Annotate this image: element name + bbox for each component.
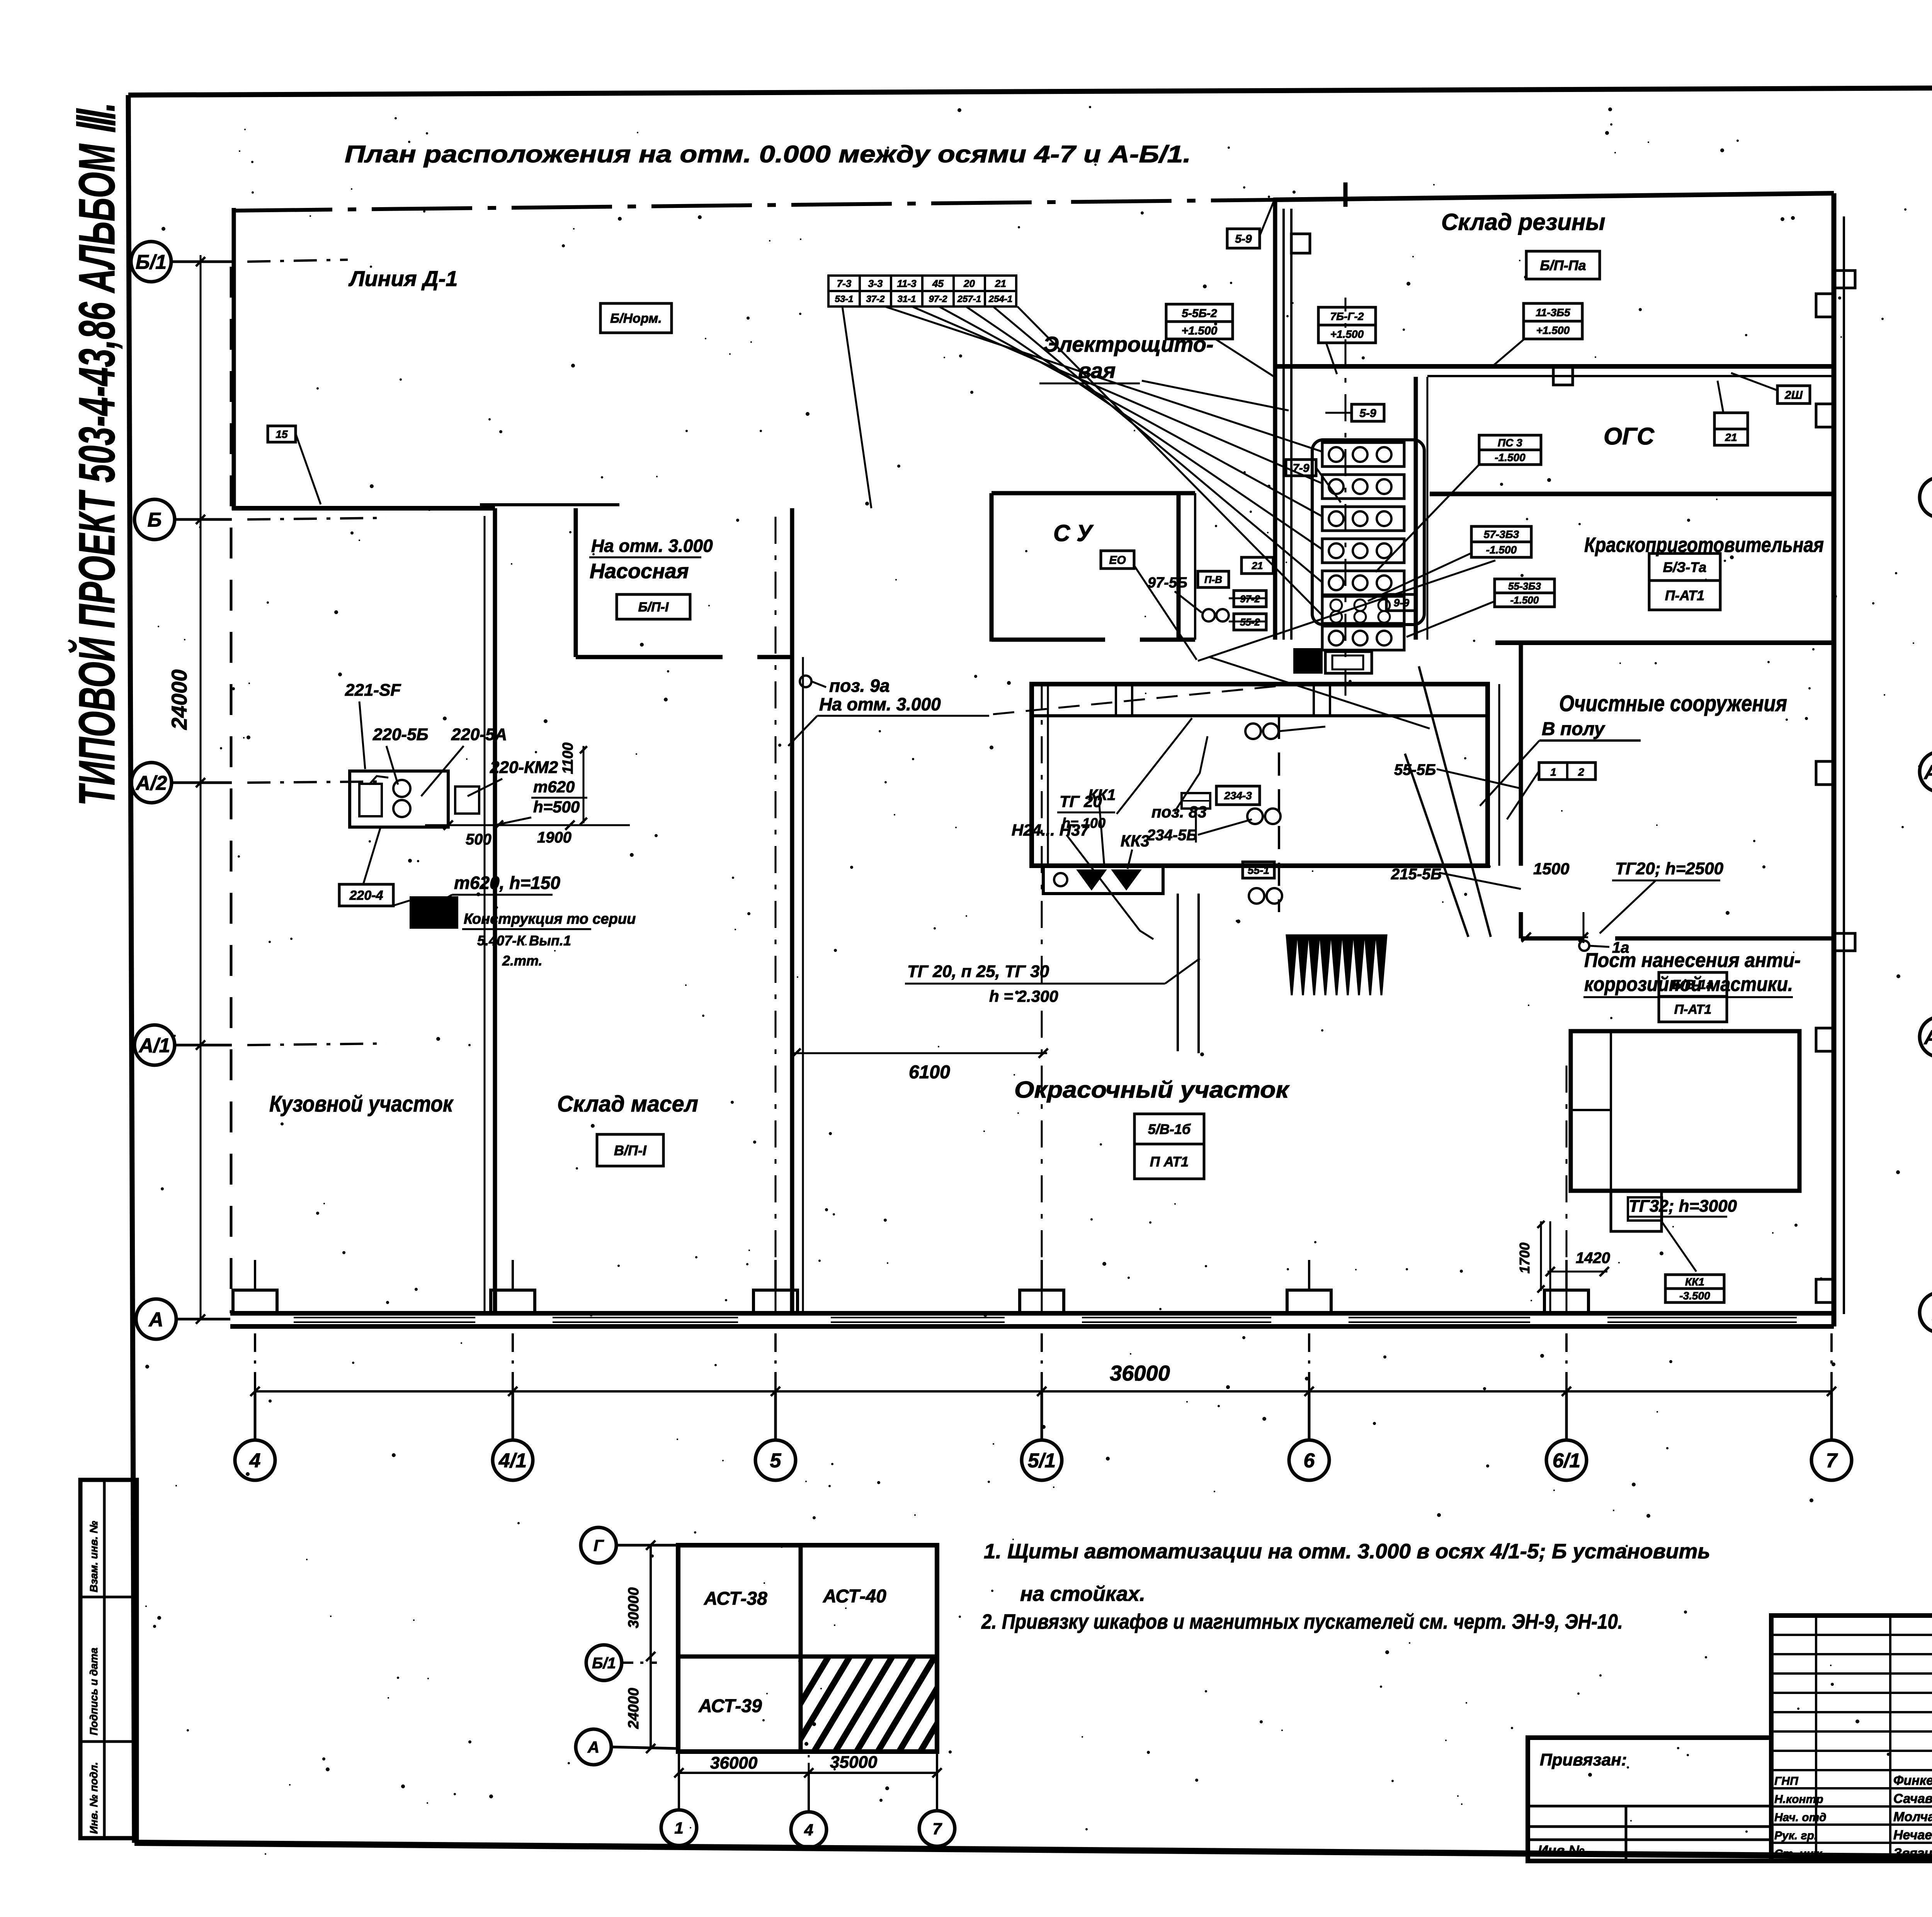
svg-text:П-АТ1: П-АТ1 [1674,1002,1712,1017]
svg-text:Б/В-1а: Б/В-1а [1672,977,1713,992]
svg-text:220-5А: 220-5А [451,725,507,744]
svg-text:257-1: 257-1 [957,294,981,305]
svg-text:В полу: В полу [1542,719,1605,739]
svg-text:-3.500: -3.500 [1679,1290,1710,1302]
svg-text:А: А [148,1309,163,1331]
svg-text:1100: 1100 [560,742,576,774]
svg-text:4: 4 [804,1821,813,1839]
svg-text:А: А [587,1738,599,1756]
svg-text:21: 21 [1725,431,1737,443]
svg-text:-1.500: -1.500 [1495,451,1526,463]
svg-text:Инв. № подл.: Инв. № подл. [88,1762,100,1834]
svg-text:Окрасочный участок: Окрасочный участок [1014,1077,1290,1103]
svg-text:А/2: А/2 [135,772,167,795]
comb hatch [1287,935,1297,995]
label box B/norm [600,303,672,333]
outlet stack [1322,443,1404,466]
svg-text:Пост нанесения анти-: Пост нанесения анти- [1584,949,1801,972]
left margin table [80,1480,137,1838]
svg-text:На отм. 3.000: На отм. 3.000 [591,536,713,556]
svg-text:220-4: 220-4 [349,888,383,903]
svg-text:1900: 1900 [537,829,571,846]
svg-text:55-1: 55-1 [1248,864,1269,876]
svg-text:План расположения на отм.: План расположения на отм. 0.000 между ос… [345,141,1191,168]
chamber labels [1216,786,1260,805]
svg-text:6: 6 [1304,1450,1315,1472]
key plan grid [678,1545,937,1752]
svg-text:37-2: 37-2 [866,294,885,305]
1a pos [1579,941,1589,951]
svg-text:7-9: 7-9 [1293,462,1310,475]
pump equipment [350,771,448,827]
svg-text:Б/З-Та: Б/З-Та [1663,559,1707,575]
svg-text:Инв.№: Инв.№ [1538,1842,1585,1858]
svg-text:2Ш: 2Ш [1784,389,1803,402]
svg-text:Б/Норм.: Б/Норм. [610,311,662,326]
svg-text:Насосная: Насосная [590,560,689,583]
svg-text:АСТ-40: АСТ-40 [823,1586,886,1607]
axis circle B/1 [131,242,171,282]
floor channels diagonals [1419,666,1491,937]
svg-text:55-3Б3: 55-3Б3 [1508,580,1541,592]
OGS bottom wall [1430,492,1834,496]
wall y=1315 [232,506,495,511]
svg-text:Конструкция то серии: Конструкция то серии [464,911,636,927]
box 220-4 [339,884,393,906]
svg-text:1: 1 [1550,766,1556,778]
svg-text:6/1: 6/1 [1553,1450,1580,1472]
dashed leader to chamber [993,686,1278,714]
axis circle A [136,1299,176,1339]
svg-text:97-2: 97-2 [929,294,947,305]
svg-text:1420: 1420 [1576,1250,1610,1267]
SU room [990,493,994,642]
svg-text:36000: 36000 [710,1754,758,1772]
svg-text:2: 2 [1578,766,1584,778]
svg-text:ЧЧ-СК: ЧЧ-СК [420,907,451,919]
row of 12 small boxes [828,276,860,291]
svg-text:53-1: 53-1 [835,294,853,305]
svg-text:6100: 6100 [909,1062,950,1083]
svg-text:Склад масел: Склад масел [557,1091,698,1117]
svg-text:На отм. 3.000: На отм. 3.000 [819,694,941,714]
svg-text:4/1: 4/1 [498,1450,527,1472]
svg-text:4: 4 [249,1450,261,1472]
svg-text:КК1: КК1 [1685,1276,1704,1288]
svg-text:7-3: 7-3 [837,278,852,289]
svg-text:Сачавской: Сачавской [1893,1791,1932,1806]
black box [411,897,457,928]
svg-text:55-5Б: 55-5Б [1394,761,1436,778]
krasko class boxes [1649,553,1720,581]
svg-text:221-SF: 221-SF [345,681,401,700]
svg-text:5: 5 [770,1450,782,1472]
svg-text:h=500: h=500 [533,798,580,816]
post equipment [1571,1031,1799,1191]
svg-text:КК1: КК1 [1088,787,1116,804]
axis circle A/2 [131,763,172,803]
svg-text:36000: 36000 [1110,1361,1170,1385]
elektro corridor walls [1273,200,1277,640]
svg-text:11-3: 11-3 [897,278,917,289]
outlet stack enclosure [1312,440,1424,625]
svg-text:Линия Д-1: Линия Д-1 [348,266,457,291]
sklad masel divider [790,508,794,1314]
SU right cluster [1198,571,1229,587]
svg-text:500: 500 [466,831,492,848]
bottom axis circles [235,1440,275,1480]
svg-text:234-5Б: 234-5Б [1146,827,1197,844]
svg-text:7Б-Г-2: 7Б-Г-2 [1330,310,1364,322]
chamber dashed duct [1278,716,1280,912]
svg-text:П АТ1: П АТ1 [1150,1154,1189,1170]
svg-text:Б/1: Б/1 [136,251,167,274]
svg-text:ГНП: ГНП [1774,1775,1799,1788]
svg-text:ТГ 20, п 25, ТГ 30: ТГ 20, п 25, ТГ 30 [907,962,1049,981]
svg-text:А/1: А/1 [138,1035,170,1057]
extra box 15 left plan [268,426,296,442]
svg-text:21: 21 [995,278,1006,289]
svg-text:А/1: А/1 [1923,1027,1932,1049]
svg-text:24000: 24000 [626,1688,642,1729]
svg-text:5/1: 5/1 [1028,1450,1056,1472]
svg-text:31-1: 31-1 [897,294,916,305]
svg-text:В/П-I: В/П-I [614,1142,647,1158]
svg-text:1: 1 [674,1819,683,1837]
svg-text:С У: С У [1053,520,1094,546]
svg-text:20: 20 [963,278,975,289]
dim 6100 [792,1052,1047,1054]
svg-text:АСТ-38: АСТ-38 [704,1588,767,1609]
paint chamber [1032,684,1488,866]
svg-text:+1.500: +1.500 [1536,324,1570,336]
svg-text:5-9: 5-9 [1235,233,1252,245]
right wall pilasters [1816,294,1834,317]
svg-text:т620: т620 [533,778,575,796]
label 5-5b-2 +1.500 [1166,304,1233,322]
box 2Sh [1777,386,1810,403]
svg-text:5.407-К Вып.1: 5.407-К Вып.1 [477,933,571,948]
EO box [1101,551,1134,569]
key plan axis circles [581,1527,616,1563]
left plan west dashed boundary [230,267,233,1313]
chamber machines [1245,724,1261,739]
svg-text:+1.500: +1.500 [1182,324,1218,337]
svg-text:Привязан:: Привязан: [1540,1750,1627,1769]
svg-text:24000: 24000 [167,669,191,730]
svg-text:h = 2.300: h = 2.300 [989,987,1058,1005]
title block: privyazan box [1528,1738,1771,1861]
pump dims [425,824,572,826]
svg-text:-1.500: -1.500 [1486,544,1517,556]
key plan bottom dim [679,1772,937,1774]
bottom column bases [233,1290,277,1314]
svg-text:9-9: 9-9 [1394,597,1410,609]
box 21 [1714,413,1748,429]
nasosnaya room [574,508,578,657]
svg-text:ТГ32; h=3000: ТГ32; h=3000 [1629,1197,1737,1216]
svg-text:3-3: 3-3 [868,278,883,289]
box 9-9 [1386,594,1417,611]
svg-text:Молчанов: Молчанов [1893,1810,1932,1824]
svg-text:220-КМ2: 220-КМ2 [490,758,558,777]
axis circle A/1 [134,1025,175,1065]
svg-text:2. Привязку шкафов и магни: 2. Привязку шкафов и магнитных пускателе… [981,1610,1623,1633]
scan speckle [1736,140,1739,142]
axis circle B [134,499,175,540]
wall y=950 (sklad reziny bottom) [1275,364,1834,369]
KK1 box [1665,1275,1724,1289]
leader fan to outlet stack [885,306,1321,451]
key plan vertical dim [650,1545,652,1748]
right outer wall [1832,193,1837,1326]
label 5-9 top [1227,229,1260,248]
bottom window lines [294,1317,475,1318]
label box B/P-IIa [1526,251,1600,279]
bottom dimension line 36000 [255,1390,1832,1393]
label 57-5b5 [1471,526,1531,542]
svg-text:Ст. инж.: Ст. инж. [1774,1847,1825,1860]
svg-text:1700: 1700 [1517,1243,1532,1273]
svg-text:234-3: 234-3 [1224,790,1252,802]
svg-text:45: 45 [932,278,944,289]
svg-text:Подпись и дата: Подпись и дата [88,1648,100,1735]
svg-text:35000: 35000 [830,1753,878,1772]
svg-text:254-1: 254-1 [988,294,1012,305]
svg-text:поз. 9а: поз. 9а [829,676,889,696]
svg-text:-1.500: -1.500 [1510,594,1539,606]
svg-text:Финкер: Финкер [1893,1773,1932,1788]
krasko bottom wall [1495,640,1834,645]
key plan bottom circles [661,1810,697,1845]
svg-text:Звягинцева: Звягинцева [1893,1846,1932,1861]
svg-text:1. Щиты автоматизации на о: 1. Щиты автоматизации на отм. 3.000 в ос… [984,1540,1710,1563]
vertical dim 24000 [200,255,202,1319]
svg-text:Н.контр: Н.контр [1774,1793,1823,1806]
svg-text:на стойках.: на стойках. [1020,1582,1145,1605]
svg-text:КК3: КК3 [1121,832,1150,850]
svg-text:21: 21 [1252,560,1263,571]
label PS 3 [1479,435,1541,450]
svg-text:Очистные сооружения: Очистные сооружения [1559,691,1787,716]
svg-text:Б/П-Па: Б/П-Па [1540,257,1586,273]
svg-text:1500: 1500 [1533,860,1569,878]
svg-text:вая: вая [1078,358,1116,383]
box 1|2 [1539,763,1595,780]
svg-text:А/2: А/2 [1923,761,1932,784]
svg-text:5-5Б-2: 5-5Б-2 [1182,307,1217,320]
svg-text:П-АТ1: П-АТ1 [1665,587,1704,603]
svg-text:Склад резины: Склад резины [1441,209,1605,235]
svg-text:ЕО: ЕО [1109,554,1126,567]
svg-text:+1.500: +1.500 [1330,328,1364,340]
svg-text:11-3Б5: 11-3Б5 [1536,306,1570,318]
svg-text:7: 7 [1826,1450,1838,1472]
label 55-3b3 [1495,579,1554,593]
na otm 3000 note + pos 9a [800,676,811,687]
svg-text:Б/П-I: Б/П-I [638,600,669,615]
label 7-9 [1286,460,1316,476]
small transformer symbol [1182,793,1210,809]
label 5-9 mid [1352,404,1384,421]
axis verticals inside plan [775,510,777,1312]
leaders across krasko [1198,560,1495,661]
svg-text:ТГ20; h=2500: ТГ20; h=2500 [1615,859,1724,878]
svg-text:7: 7 [932,1820,942,1838]
svg-text:Нечаева: Нечаева [1893,1828,1932,1842]
ochistnye walls [1519,643,1523,866]
chamber appendix [1043,866,1163,894]
label 7-5b-2 +1.500 [1318,307,1376,325]
svg-text:Б: Б [148,509,162,531]
svg-text:АСТ-39: АСТ-39 [698,1696,762,1716]
signature rows [1771,1769,1932,1771]
label 11-3b5 +1.500 [1524,303,1582,321]
svg-text:Б/1: Б/1 [592,1655,616,1672]
svg-text:Н24... Н37: Н24... Н37 [1012,821,1090,839]
kuzovnoy right wall [493,508,497,1314]
svg-text:ТИПОВОЙ ПРОЕКТ 503-4-43,86 А: ТИПОВОЙ ПРОЕКТ 503-4-43,86 АЛЬБОМ Ⅲ. [68,102,125,806]
svg-text:97-5Б: 97-5Б [1148,575,1187,591]
svg-text:ПС 3: ПС 3 [1498,437,1522,449]
svg-text:Рук. гр.: Рук. гр. [1774,1829,1817,1842]
svg-text:30000: 30000 [626,1587,642,1628]
svg-text:т620, h=150: т620, h=150 [454,873,560,893]
svg-text:220-5Б: 220-5Б [372,725,429,744]
right plan letter axes [1920,477,1932,518]
left plan west vertical (top) [232,208,236,510]
bottom outer wall [230,1311,1834,1316]
svg-text:ОГС: ОГС [1604,423,1655,450]
svg-text:П-В: П-В [1204,574,1222,585]
svg-text:Нач. отд: Нач. отд [1774,1811,1827,1824]
svg-text:2.тт.: 2.тт. [502,953,543,969]
svg-text:57-3Б3: 57-3Б3 [1484,528,1519,540]
svg-text:5/В-1б: 5/В-1б [1148,1121,1191,1137]
svg-text:5-9: 5-9 [1359,407,1376,420]
svg-text:Кузовной участок: Кузовной участок [269,1091,454,1117]
svg-text:15: 15 [276,428,288,440]
B/V-1a P-AT1 boxes [1659,972,1727,996]
stack bottom dark boxes [1294,649,1321,672]
svg-text:Взам. инв. №: Взам. инв. № [88,1521,100,1592]
svg-text:Г: Г [594,1536,604,1554]
border frame [128,87,1932,95]
left plan top boundary (dash) [232,200,1273,211]
title block: revision table [1771,1616,1932,1861]
svg-text:215-5Б: 215-5Б [1391,866,1442,883]
